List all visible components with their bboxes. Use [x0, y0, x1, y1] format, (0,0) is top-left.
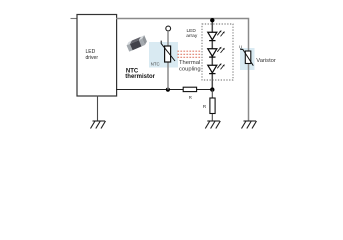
thermistor RT1 symbol: [161, 41, 175, 62]
svg-text:R: R: [203, 104, 207, 110]
LED array dashed box: [202, 24, 233, 80]
svg-text:NTC: NTC: [151, 62, 160, 67]
svg-text:coupling: coupling: [179, 66, 201, 72]
LED D1: [208, 32, 217, 40]
thermal coupling dashed lines: [177, 51, 200, 57]
terminal node (open circle) on NTC sense line: [166, 26, 171, 31]
ground (varistor): [242, 121, 257, 129]
resistor R (vertical, sense divider): [211, 90, 213, 122]
varistor RV1 symbol: [240, 49, 253, 65]
NTC blue highlight box: [149, 42, 178, 68]
LED D3: [208, 65, 217, 73]
ground (sense divider): [205, 121, 220, 129]
svg-text:driver: driver: [86, 55, 99, 61]
wire: bottom rail from driver to node B: [116, 89, 213, 91]
svg-text:Varistor: Varistor: [256, 58, 276, 64]
svg-text:Thermal: Thermal: [179, 60, 200, 66]
junction node B (bottom of LED branch): [210, 87, 214, 91]
LED D1 emission arrows: [217, 30, 224, 36]
LED D2: [208, 49, 217, 57]
svg-text:R: R: [189, 95, 192, 100]
varistor blue highlight box: [240, 48, 255, 70]
svg-text:thermistor: thermistor: [125, 74, 155, 80]
ground (driver): [91, 121, 106, 129]
wire: left input stub of LED driver: [71, 18, 78, 20]
wire: LED branch vertical: [211, 19, 213, 90]
resistor R (horizontal, bottom rail): [183, 87, 196, 91]
LED D2 emission arrows: [217, 47, 224, 53]
junction node A (NTC branch / rail): [166, 88, 170, 92]
wire: top rail from driver to varistor branch: [116, 19, 249, 122]
LED driver U1 box: [77, 15, 117, 97]
junction node (top of LED branch): [210, 18, 214, 22]
svg-text:U: U: [239, 44, 242, 49]
LED D3 emission arrows: [217, 63, 224, 69]
wire: NTC branch vertical: [167, 31, 169, 90]
NTC thermistor photo (SMD chip): [126, 35, 148, 51]
svg-text:array: array: [186, 33, 198, 39]
wire: driver ground lead: [97, 96, 99, 122]
